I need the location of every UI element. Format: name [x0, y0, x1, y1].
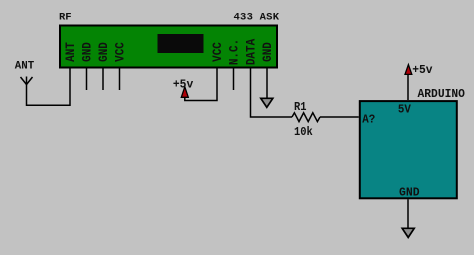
svg-text:ARDUINO: ARDUINO — [418, 87, 465, 102]
pin stub GND2 — [102, 69, 104, 91]
ground symbol (RF) — [261, 98, 273, 107]
Arduino body — [360, 101, 457, 198]
svg-text:ANT: ANT — [15, 60, 35, 72]
wire DATA pin to resistor — [251, 69, 293, 118]
pin stub N.C. — [233, 69, 235, 91]
pin stub GND1 — [86, 69, 88, 91]
svg-text:433 ASK: 433 ASK — [234, 11, 280, 23]
svg-text:GND: GND — [260, 42, 275, 62]
svg-text:N.C.: N.C. — [227, 39, 242, 65]
resistor R1 — [292, 113, 320, 122]
wire Arduino GND down — [407, 199, 409, 228]
svg-text:ANT: ANT — [63, 42, 78, 62]
svg-text:5V: 5V — [398, 103, 411, 117]
+5v supply arrow (Arduino) — [405, 65, 412, 75]
antenna symbol — [21, 77, 33, 85]
svg-text:VCC: VCC — [113, 42, 128, 62]
wire ANT pin to antenna — [27, 69, 71, 106]
svg-text:DATA: DATA — [244, 38, 259, 65]
svg-text:RF: RF — [59, 11, 72, 23]
svg-text:R1: R1 — [294, 102, 307, 115]
wire Arduino 5V to +5v — [407, 73, 409, 101]
svg-text:GND: GND — [96, 42, 111, 62]
svg-text:VCC: VCC — [210, 42, 225, 62]
wire GND pin down — [266, 69, 268, 99]
svg-text:10k: 10k — [294, 126, 313, 139]
ground symbol (Arduino) — [402, 228, 414, 237]
module black block — [158, 34, 204, 53]
wire resistor to Arduino A? — [320, 116, 359, 118]
+5v supply arrow (RF) — [181, 87, 188, 98]
svg-text:+5v: +5v — [173, 77, 193, 92]
pin stub VCC left — [119, 69, 121, 91]
svg-text:A?: A? — [362, 113, 375, 127]
wire VCC pin to +5v — [185, 69, 217, 101]
svg-text:+5v: +5v — [412, 62, 432, 77]
svg-text:GND: GND — [80, 42, 95, 62]
svg-text:GND: GND — [399, 185, 420, 199]
RF module body — [60, 26, 277, 68]
